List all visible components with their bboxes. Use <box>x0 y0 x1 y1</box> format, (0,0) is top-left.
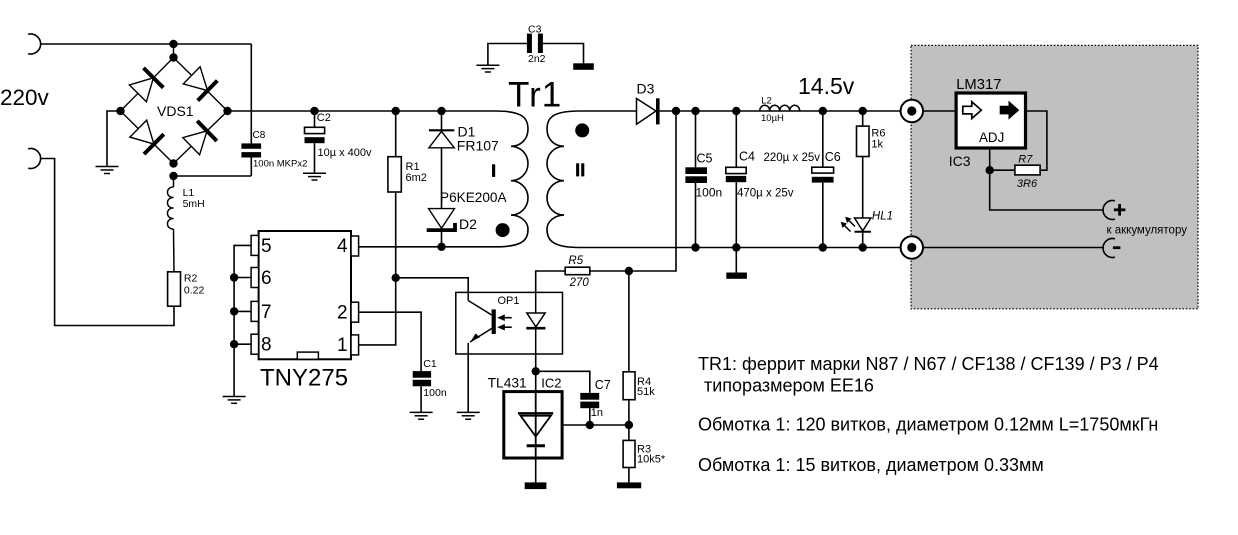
node R1 tap on DC bus <box>392 107 400 115</box>
svg-text:Обмотка 1: 15 витков, диаметро: Обмотка 1: 15 витков, диаметром 0.33мм <box>698 455 1044 475</box>
node C5 top <box>691 107 699 115</box>
wire LM317 out around to R7 <box>1026 111 1047 170</box>
node C7 bottom on REF wire <box>586 421 594 429</box>
node R5/R4 junction <box>625 267 633 275</box>
ground (TL431 anode bar) <box>525 482 547 489</box>
inductor L2 <box>760 105 800 111</box>
svg-text:ADJ: ADJ <box>979 130 1004 145</box>
node C6 top <box>819 107 827 115</box>
svg-text:R5: R5 <box>568 255 583 267</box>
wire ADJ pin down to node <box>989 148 991 170</box>
IC2 TL431 box <box>504 392 562 458</box>
node C2 tap <box>310 107 318 115</box>
node C5 bottom <box>691 243 699 251</box>
resistor R2 <box>168 272 181 306</box>
svg-text:1n: 1n <box>591 407 603 419</box>
wire pin1 to R1/opto node <box>359 278 396 345</box>
LED HL1 emission arrows <box>841 217 855 232</box>
svg-text:10µ x 400v: 10µ x 400v <box>318 147 373 159</box>
plus sign <box>1114 204 1126 216</box>
TVS diode D2 P6KE200A <box>427 209 455 247</box>
svg-text:2: 2 <box>337 302 348 323</box>
svg-text:D2: D2 <box>459 216 477 232</box>
svg-text:Обмотка 1: 120 витков, диаметр: Обмотка 1: 120 витков, диаметром 0.12мм … <box>698 415 1158 435</box>
pin 6 box <box>251 268 259 288</box>
minus sign <box>1113 246 1121 249</box>
LM317 input arrow (open) <box>963 102 982 119</box>
svg-text:270: 270 <box>569 277 590 289</box>
wire opto emitter to ground <box>467 354 469 412</box>
resistor R1 <box>388 111 401 278</box>
diode VDS1.3 (left to bottom) <box>130 120 164 154</box>
battery minus terminal <box>1103 239 1115 258</box>
svg-text:TL431: TL431 <box>488 376 527 391</box>
battery plus terminal <box>1103 201 1115 220</box>
svg-text:C3: C3 <box>528 24 542 36</box>
wire secondary ground rail <box>579 247 901 249</box>
label I (primary) <box>492 164 495 177</box>
svg-text:3R6: 3R6 <box>1017 178 1038 190</box>
wire rectified DC bus <box>228 110 497 112</box>
ground (primary, under C3 left) <box>476 65 499 72</box>
node R6 top <box>859 107 867 115</box>
TL431 internal symbol <box>518 392 553 458</box>
ground (secondary bar under C4) <box>726 273 747 279</box>
svg-text:10k5*: 10k5* <box>637 453 666 465</box>
svg-text:100n: 100n <box>696 185 723 199</box>
ground (opto emitter) <box>457 412 480 419</box>
capacitor C1 <box>413 371 431 412</box>
wire jack to LM317 input <box>923 110 956 112</box>
wire opto LED cathode down to TL431 <box>535 354 537 392</box>
LED HL1 <box>855 218 871 248</box>
ground (TNY source bus) <box>223 397 246 404</box>
junction pin8 on bus <box>230 340 238 348</box>
svg-text:Tr1: Tr1 <box>508 76 562 115</box>
svg-text:1k: 1k <box>871 138 883 150</box>
node HL1 bottom <box>859 243 867 251</box>
ground (bar under R3) <box>617 482 641 488</box>
wire X1 to top AC net <box>41 43 252 45</box>
label II (secondary) <box>576 163 584 176</box>
svg-text:5: 5 <box>261 236 272 257</box>
node feedback tap <box>672 107 680 115</box>
svg-text:100n: 100n <box>423 387 447 399</box>
svg-text:4: 4 <box>337 236 348 257</box>
svg-text:TNY275: TNY275 <box>260 365 348 392</box>
output terminal minus (jack) <box>901 236 923 258</box>
node D1 tap on DC bus <box>437 107 445 115</box>
node LED cathode / TL431 / C7 <box>532 367 540 375</box>
input terminal X1 (line) <box>28 34 40 54</box>
capacitor C5 <box>685 111 707 248</box>
wire TL431 REF to divider <box>562 424 629 426</box>
opto LED <box>526 292 545 354</box>
shielded output block (gray dashed box) <box>911 45 1198 308</box>
node bridge left vertex <box>116 107 124 115</box>
resistor R5 <box>536 267 629 292</box>
svg-text:R7: R7 <box>1018 154 1033 166</box>
node C4 top <box>732 107 740 115</box>
svg-text:C5: C5 <box>697 152 713 166</box>
node top AC junction <box>169 40 177 48</box>
wire feedback tap down to R5 rail <box>629 111 676 271</box>
wire TNY drain (pin4) to primary winding bottom <box>359 246 496 248</box>
wire secondary top to D3 <box>579 110 637 112</box>
svg-text:C4: C4 <box>739 150 755 164</box>
wire output bus after D3 <box>660 110 901 112</box>
svg-text:470µ x 25v: 470µ x 25v <box>737 187 794 199</box>
pin 7 box <box>251 301 259 321</box>
svg-text:2n2: 2n2 <box>528 53 546 65</box>
wire node to C7 <box>536 371 590 393</box>
svg-text:D3: D3 <box>637 81 655 97</box>
wire pin5/6/7/8 ground bus <box>234 245 251 396</box>
svg-text:220µ x 25v: 220µ x 25v <box>764 152 821 164</box>
wire bridge left vertex to ground <box>107 111 121 167</box>
wire node to R7 left <box>990 169 1015 171</box>
IC3 LM317 box <box>956 93 1025 148</box>
svg-text:8: 8 <box>261 335 272 356</box>
svg-text:P6KE200A: P6KE200A <box>440 190 507 205</box>
svg-text:L2: L2 <box>761 95 772 106</box>
svg-text:TR1: феррит марки N87 / N67 /: TR1: феррит марки N87 / N67 / CF138 / CF… <box>698 354 1159 374</box>
LM317 output arrow (filled) <box>1000 102 1018 119</box>
node bridge top vertex <box>169 53 177 61</box>
ground (primary, bridge minus) <box>96 167 119 174</box>
wire bridge diamond sides <box>121 44 228 164</box>
diode VDS1.2 (top to right) <box>183 67 217 101</box>
wire minus jack to battery minus <box>923 247 1103 249</box>
svg-text:типоразмером ЕЕ16: типоразмером ЕЕ16 <box>704 376 874 396</box>
capacitor C3 (Y-cap primary to secondary) <box>488 34 584 65</box>
svg-text:к аккумулятору: к аккумулятору <box>1107 225 1188 237</box>
svg-text:C6: C6 <box>825 150 841 164</box>
node C6 bottom <box>819 243 827 251</box>
resistor R7 <box>1015 165 1040 175</box>
svg-text:VDS1: VDS1 <box>157 103 194 119</box>
svg-text:IC3: IC3 <box>949 153 971 169</box>
svg-text:6m2: 6m2 <box>406 172 427 184</box>
node pin1/R1/opto <box>392 274 400 282</box>
optocoupler OP1 box <box>456 292 563 354</box>
resistor R6 <box>857 111 870 218</box>
IC TNY275 body <box>259 231 351 359</box>
wire X2 down-around to R2 bottom <box>41 159 174 326</box>
ground (under C2) <box>303 173 326 180</box>
svg-text:14.5v: 14.5v <box>798 73 855 99</box>
capacitor C8 (X-cap across AC) <box>241 44 261 176</box>
diode D1 <box>429 111 454 209</box>
svg-text:C1: C1 <box>423 358 437 370</box>
output terminal plus (jack) <box>901 100 923 122</box>
svg-text:51k: 51k <box>637 386 655 398</box>
node bottom AC junction <box>169 172 177 180</box>
svg-text:OP1: OP1 <box>498 295 520 307</box>
node C4 bottom <box>732 243 740 251</box>
wire ADJ node to battery plus <box>990 170 1103 210</box>
inductor L1 <box>167 176 174 272</box>
opto transistor <box>468 292 494 354</box>
diode D3 <box>637 98 658 124</box>
svg-text:6: 6 <box>261 268 272 289</box>
svg-text:220v: 220v <box>0 85 50 110</box>
diode bridge VDS1 <box>116 40 231 180</box>
junction pin6 on bus <box>230 273 238 281</box>
junction pin7 on bus <box>230 307 238 315</box>
svg-text:0.22: 0.22 <box>184 285 205 297</box>
svg-text:C7: C7 <box>595 378 611 392</box>
pin 1 box <box>351 335 359 355</box>
wire pin2 to C1 <box>359 312 422 371</box>
svg-text:1: 1 <box>337 335 348 356</box>
svg-text:LM317: LM317 <box>956 77 1001 93</box>
svg-text:HL1: HL1 <box>872 210 893 222</box>
phase dot primary <box>496 223 510 237</box>
pin 5 box <box>251 235 259 255</box>
svg-text:R2: R2 <box>184 273 198 285</box>
diode VDS1.1 (left to top) <box>129 68 163 102</box>
pin 8 box <box>251 334 259 354</box>
svg-text:10µH: 10µH <box>761 113 784 124</box>
resistor R4 <box>623 271 635 440</box>
svg-text:C8: C8 <box>253 130 266 141</box>
node bridge right vertex <box>223 107 231 115</box>
ground (secondary bar, under C3 right) <box>573 63 594 70</box>
diode VDS1.4 (bottom to right) <box>183 121 217 155</box>
pin 2 box <box>351 302 359 322</box>
opto light arrows <box>497 314 512 330</box>
wire TL431 anode to ground <box>535 458 537 482</box>
svg-text:IC2: IC2 <box>541 376 561 391</box>
pin 4 box <box>351 236 359 256</box>
transformer Tr1 secondary winding II <box>547 111 579 248</box>
svg-text:C2: C2 <box>317 112 331 124</box>
capacitor C6 (electrolytic) <box>812 111 834 248</box>
capacitor C4 (electrolytic) <box>726 111 746 273</box>
svg-text:5mH: 5mH <box>183 198 205 210</box>
resistor R3 <box>623 440 635 482</box>
capacitor C2 (bulk electrolytic) <box>305 111 325 173</box>
node bridge bottom vertex <box>169 159 177 167</box>
svg-text:7: 7 <box>261 302 272 323</box>
node D2 to drain wire <box>437 243 445 251</box>
svg-text:FR107: FR107 <box>457 138 499 154</box>
capacitor C7 <box>580 393 599 425</box>
transformer Tr1 primary winding I <box>496 111 528 247</box>
phase dot secondary <box>575 123 589 137</box>
input terminal X2 (neutral) <box>28 149 40 169</box>
wire node to opto collector <box>396 278 469 293</box>
notch on chip bottom <box>297 352 318 359</box>
node R4/R3/REF <box>625 421 633 429</box>
svg-text:100n MKPx2: 100n MKPx2 <box>253 159 307 170</box>
ground (under C1) <box>410 412 433 419</box>
wire bottom AC net to C8 <box>174 175 252 177</box>
node ADJ/R7 <box>986 166 994 174</box>
